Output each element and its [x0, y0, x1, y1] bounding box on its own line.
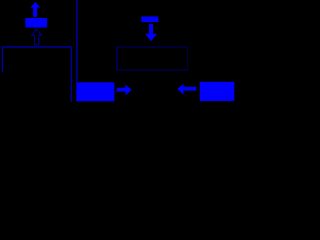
- box B (bottom-center filled rectangle): [76, 82, 114, 101]
- box A (top-left filled rectangle): [25, 18, 47, 28]
- right box right edge (faint): [187, 47, 189, 70]
- filled up arrow (top left departure): [31, 2, 41, 17]
- box D (bottom-right filled rectangle): [200, 82, 235, 101]
- left arrow (west of box D): [177, 84, 196, 95]
- filled down arrow (below box C): [145, 24, 157, 42]
- wire: left box left edge (partial): [1, 46, 3, 72]
- right arrow (east of box B): [117, 84, 132, 95]
- wire: left box right edge (long vertical): [70, 46, 72, 102]
- wire: full-height vertical separator: [76, 0, 78, 82]
- right box top edge: [116, 46, 188, 48]
- hollow up arrow (below box A): [32, 29, 42, 45]
- box C (top-right small filled rectangle): [141, 16, 158, 22]
- wire: left box top edge: [2, 46, 71, 48]
- right box bottom edge: [116, 69, 187, 71]
- right box left edge: [116, 47, 118, 71]
